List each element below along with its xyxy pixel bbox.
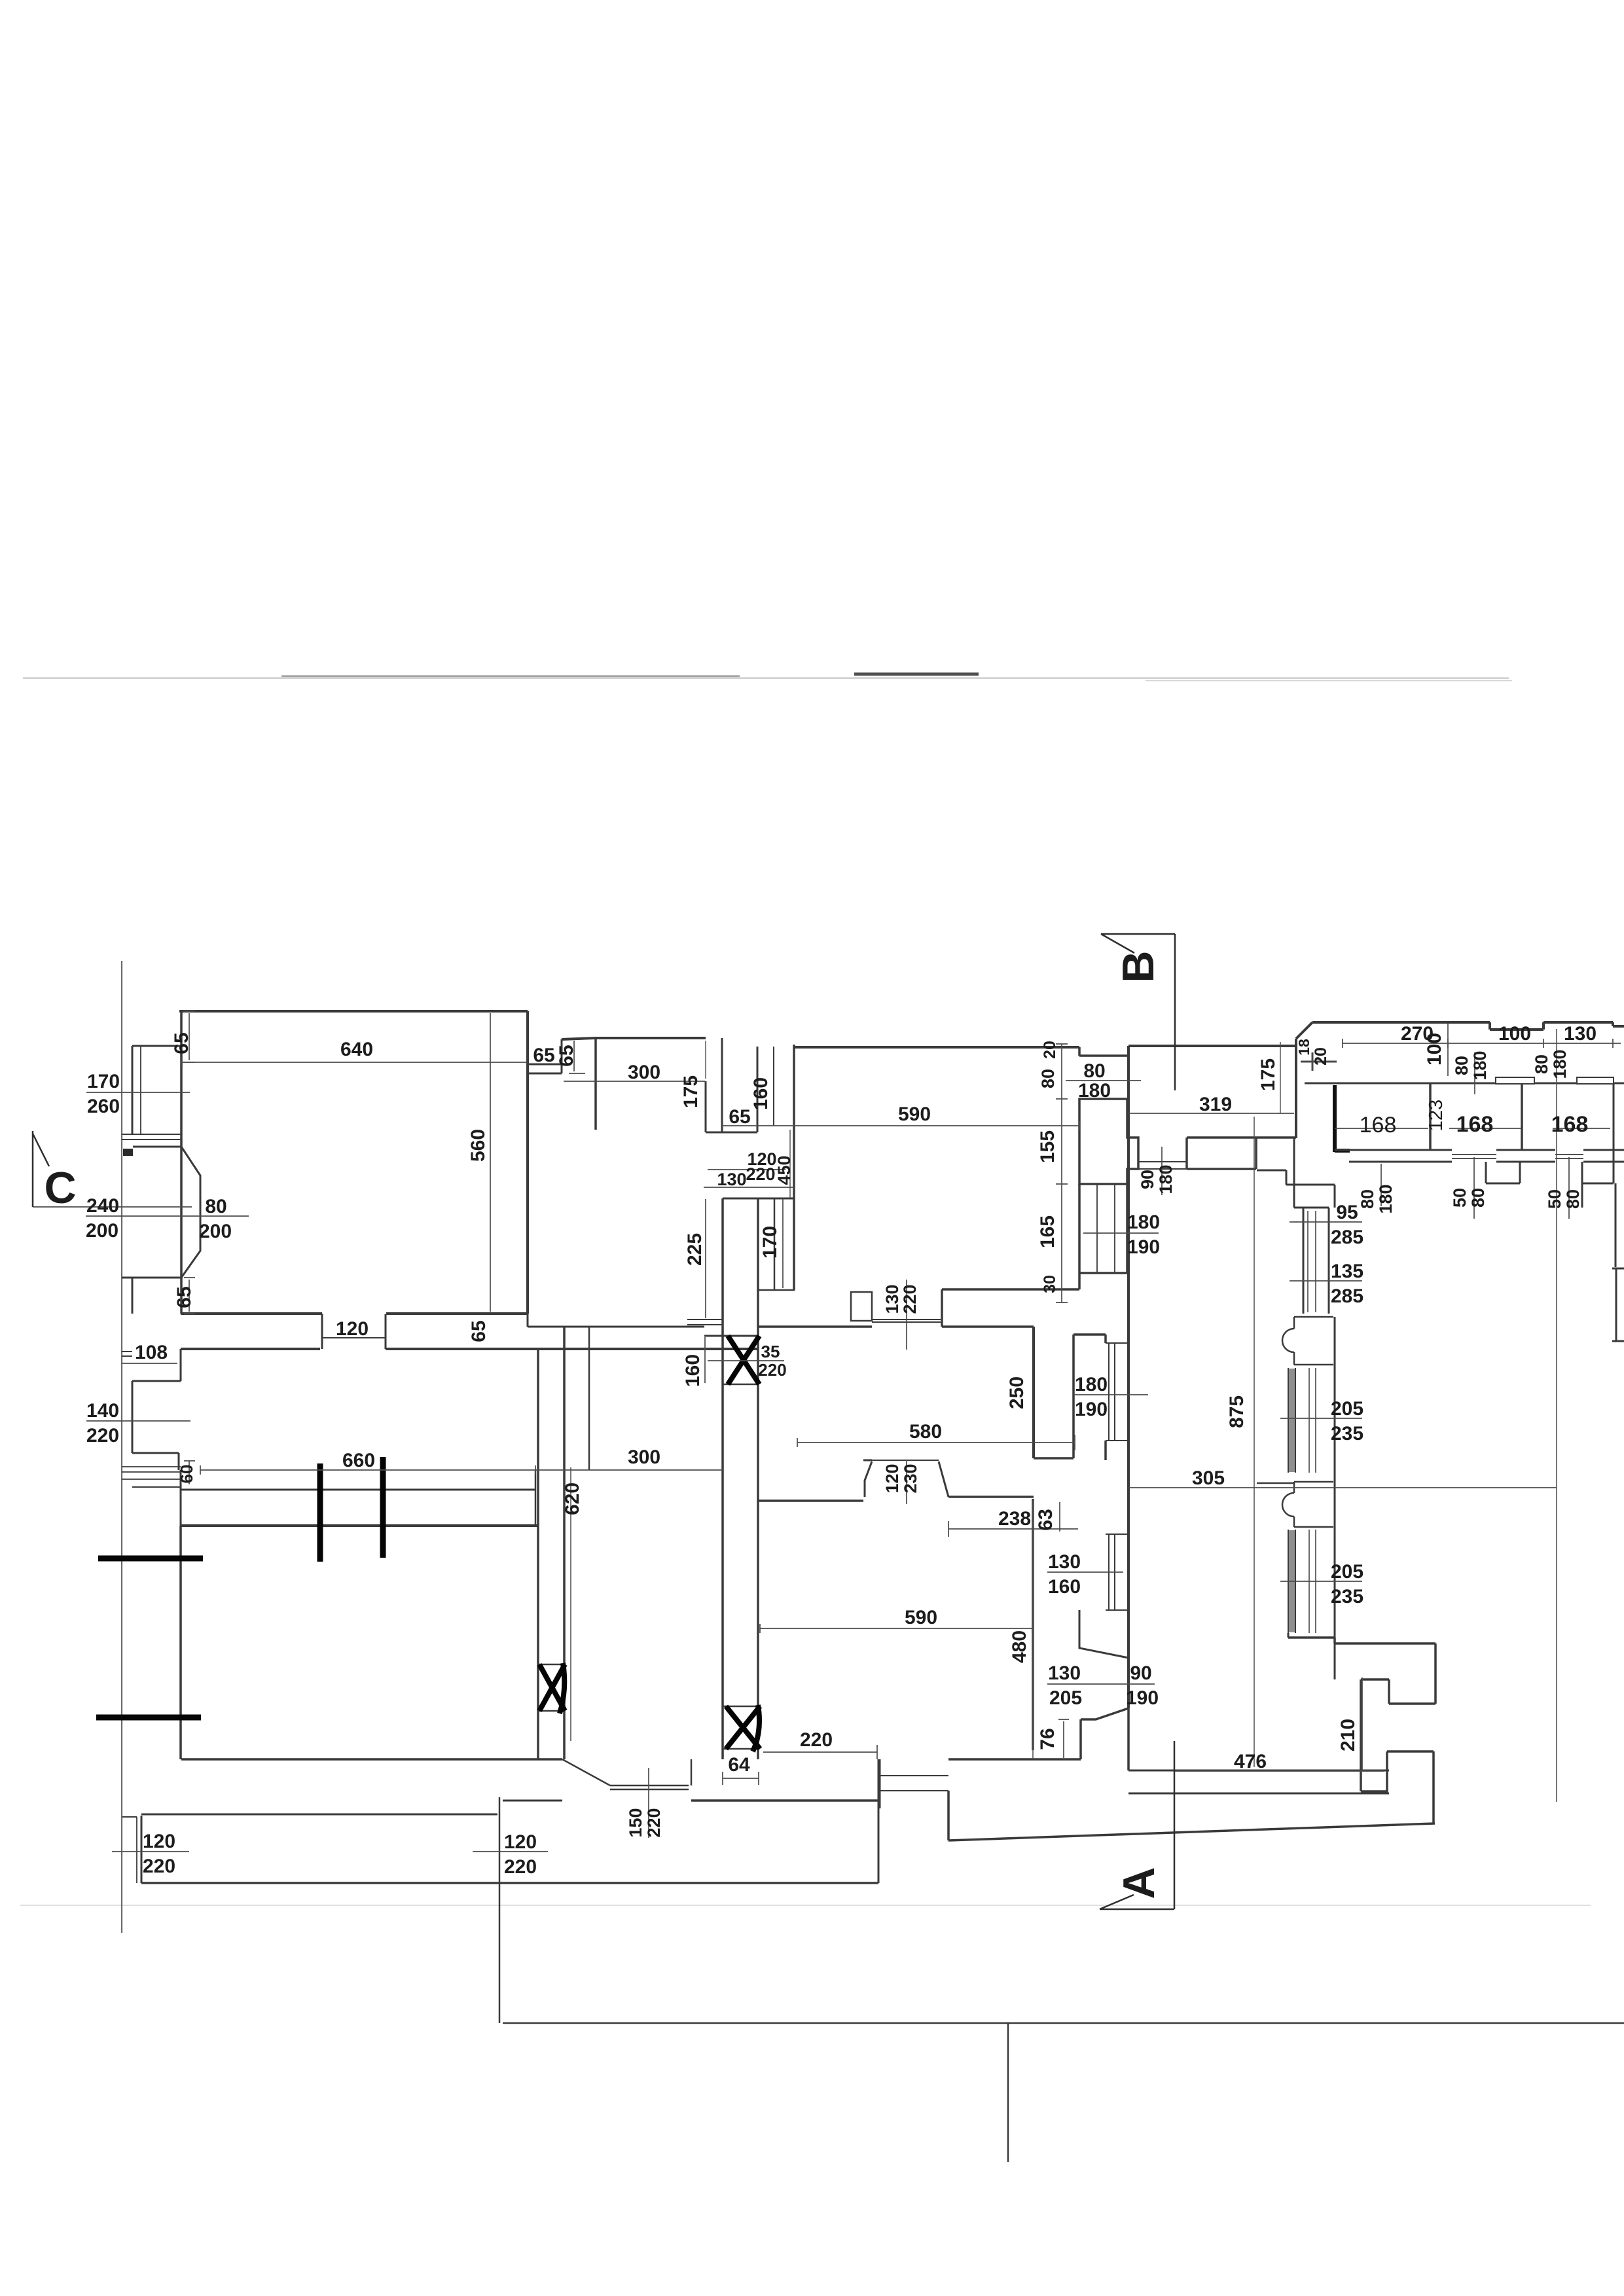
svg-text:220: 220 [86,1425,119,1446]
svg-text:120: 120 [143,1831,175,1852]
demolition bar horizontal 1 [98,1556,203,1562]
niche 2 [1294,1482,1333,1527]
svg-text:120: 120 [504,1831,537,1853]
dim 450 line [789,1130,791,1198]
svg-text:225: 225 [684,1233,706,1266]
svg-text:300: 300 [628,1062,660,1083]
thick glazing line left room [1333,1085,1337,1152]
svg-text:80: 80 [1038,1069,1058,1088]
lower-left room east wall [537,1349,539,1759]
top wing north wall [1312,1022,1624,1030]
bottom outline vertical center [1007,2023,1009,2162]
dim 120-230 door line [906,1460,907,1504]
dim 590 top line [723,1121,1079,1130]
dim 65 lowleft ticks [184,1278,195,1314]
svg-text:80: 80 [205,1196,226,1217]
window sill 170-260 [122,1134,181,1139]
dim 170 line [782,1199,784,1288]
wall jog at center door [878,1759,880,1883]
window 180-190 in hall wall [1106,1343,1128,1441]
dim 130 line mid [704,1187,794,1188]
dim ticks chain x1622 [1056,1044,1068,1302]
svg-text:50: 50 [1450,1188,1470,1208]
dim 319 line [1128,1113,1294,1114]
demolition bar vertical 1 [317,1463,323,1562]
svg-text:220: 220 [143,1856,175,1877]
svg-text:620: 620 [562,1482,583,1515]
wall right of 660 room [535,1470,537,1526]
svg-text:65: 65 [468,1320,490,1342]
dim 175 right line [1280,1042,1281,1113]
svg-text:65: 65 [173,1286,195,1308]
dim 180-190 low line [1074,1394,1148,1395]
svg-text:480: 480 [1009,1630,1030,1663]
dim 60 ticks [184,1461,195,1484]
demolition bar vertical 2 [380,1457,386,1558]
crossed door X upper [723,1336,758,1384]
svg-text:190: 190 [1126,1687,1159,1709]
wall segment above door [942,1288,1079,1291]
dim 65 top-left [183,1011,195,1062]
chimney slants at hall [1079,1610,1128,1658]
section marker A [1100,1741,1174,1909]
dim 180-190 line [1083,1232,1159,1234]
svg-text:A: A [1114,1867,1164,1899]
top wing inner north face [1305,1083,1624,1085]
svg-text:130: 130 [1048,1662,1081,1684]
corridor south wall [181,1348,757,1350]
svg-text:590: 590 [905,1607,937,1628]
svg-text:130: 130 [882,1284,902,1314]
dim 80-180 top line [1066,1080,1141,1081]
svg-text:305: 305 [1192,1467,1225,1489]
svg-text:80: 80 [1358,1189,1377,1209]
svg-text:100: 100 [1498,1023,1531,1045]
wall right of big left room [526,1011,529,1314]
dim 270-100-130 line [1343,1039,1621,1048]
svg-text:150: 150 [626,1808,645,1837]
window 130-160 in hall wall low [1106,1534,1128,1610]
wall top of big left room [179,1010,528,1013]
svg-text:80: 80 [1563,1189,1583,1209]
svg-text:65: 65 [533,1045,554,1066]
svg-text:65: 65 [171,1032,192,1054]
wall top of 300 room [562,1038,706,1039]
dim 80-180 vline a [1474,1052,1475,1094]
south wall right inner [948,1758,1081,1761]
crossed door X left [538,1664,564,1711]
E-end of south-east wing [1288,1638,1435,1791]
shaft wall right of 300 room [706,1038,757,1132]
pillar below hall [1079,1099,1138,1184]
west wall of east wing with niches [1334,1317,1336,1679]
wall left inner face of big left room [180,1011,183,1314]
svg-text:319: 319 [1199,1094,1232,1115]
svg-text:285: 285 [1331,1285,1363,1307]
wall block right of door [1187,1138,1256,1169]
dim 210 line [1362,1677,1363,1771]
south wall outer lines left [141,1801,562,1814]
wall 250 east of 580 room [1032,1327,1035,1458]
svg-text:160: 160 [1048,1576,1081,1598]
svg-text:580: 580 [909,1421,942,1443]
bay window splay [122,1147,200,1278]
middle hall west wall [563,1327,566,1759]
svg-text:220: 220 [644,1808,664,1837]
wall east of lower 590 room [1032,1499,1034,1750]
svg-text:90: 90 [1130,1662,1151,1684]
small corner stubs 660 room NE [687,1319,723,1325]
wall 580 room south left part [757,1499,863,1502]
dim 135-285 line [1290,1280,1362,1282]
wall left of lower-left room [179,1526,182,1759]
wall face under sill [181,1489,535,1491]
east wall top wing [1582,1084,1614,1208]
dim 875 line [1254,1117,1255,1767]
window sill blocks top wing [1496,1077,1614,1084]
svg-text:155: 155 [1037,1130,1058,1163]
svg-text:200: 200 [199,1221,232,1242]
svg-text:80: 80 [1468,1188,1488,1208]
svg-text:65: 65 [729,1106,750,1128]
svg-text:205: 205 [1331,1398,1363,1420]
dim 160 door line [704,1337,706,1383]
dim 76 line [1058,1719,1069,1758]
window lines upper shaft [773,1047,774,1126]
svg-text:35: 35 [761,1342,780,1361]
bottom outline horizontal [503,2022,1624,2024]
dim C section line [33,1206,192,1208]
svg-text:220: 220 [746,1164,775,1184]
svg-text:175: 175 [1257,1058,1279,1091]
dim 225 line [705,1199,706,1318]
dim 175 line [705,1041,706,1079]
svg-text:168: 168 [1551,1112,1589,1137]
shaft right wall upper [757,1047,759,1132]
window hatch 1 [1288,1368,1295,1473]
svg-text:590: 590 [898,1103,931,1125]
door sills top wing corridor [1452,1155,1583,1158]
svg-text:90: 90 [1138,1170,1157,1189]
svg-text:65: 65 [556,1045,577,1066]
window sill hatch 660 room [122,1467,181,1479]
south wall outer edge left [141,1882,878,1884]
wall left of 300 room [594,1038,597,1130]
dim 476 line [1174,1770,1384,1772]
svg-text:640: 640 [340,1039,373,1060]
dim 80-180 door a line [1380,1164,1382,1206]
scan artifact top rule [23,677,1509,679]
svg-text:235: 235 [1331,1586,1363,1607]
svg-text:135: 135 [1331,1261,1363,1282]
dim 590 lower line [760,1624,1032,1633]
svg-text:100: 100 [1424,1033,1445,1066]
lower shaft walls [721,1198,724,1759]
hall west wall [1127,1046,1130,1708]
svg-text:230: 230 [901,1463,920,1493]
left boundary line [121,961,122,1933]
svg-text:285: 285 [1331,1227,1363,1248]
svg-text:170: 170 [87,1071,120,1092]
svg-text:180: 180 [1376,1184,1396,1213]
wall left of 590 room [793,1045,795,1290]
wall top of lower-left room [181,1524,538,1527]
dim 35-220 line [708,1360,784,1361]
niche 1 [1294,1317,1333,1365]
dim 640 line [182,1058,528,1067]
svg-text:C: C [44,1163,76,1213]
svg-text:18: 18 [1295,1039,1312,1056]
dim 108 line [122,1363,177,1364]
bottom outline vertical left [499,1797,501,2023]
dim 95-285 line [1290,1221,1362,1223]
door sill 130-220 [872,1319,941,1322]
dim 140-220 line [86,1420,190,1422]
wall east jog of 580 room [1034,1335,1106,1460]
svg-text:476: 476 [1234,1751,1267,1772]
svg-text:875: 875 [1226,1395,1248,1428]
svg-text:165: 165 [1037,1215,1058,1248]
wall top of hall to B [1128,1045,1296,1047]
dim 240-200 line [86,1215,249,1217]
door sill at pillar [1138,1162,1187,1169]
svg-text:130: 130 [1048,1551,1081,1573]
wall left inner continuation [180,1470,182,1526]
dim 100 vert line [1447,1024,1449,1076]
sill lip bottom left [122,1816,137,1818]
svg-text:168: 168 [1360,1113,1397,1138]
window hatch 2 [1288,1530,1295,1633]
demolition bar horizontal 2 [96,1715,201,1721]
dim 620 line [570,1467,571,1741]
wall left outer face lower column [132,1278,134,1314]
svg-text:220: 220 [758,1360,786,1380]
wall top of 590 room [794,1046,1079,1049]
partition walls top wing [1430,1083,1522,1150]
dim 130-205 90-190 line [1047,1683,1155,1685]
dim 120-220 line mid [708,1169,785,1170]
svg-text:238: 238 [998,1508,1031,1530]
svg-text:240: 240 [86,1195,119,1217]
top wing west edge [1296,1022,1312,1138]
svg-text:160: 160 [750,1077,772,1110]
step wall at top middle [528,1039,562,1073]
section marker C [33,1131,49,1207]
west wall lower reach [1288,1633,1335,1643]
dim 300 line top [564,1081,705,1082]
svg-text:560: 560 [467,1129,489,1162]
svg-text:130: 130 [1564,1023,1597,1045]
scan artifact faint rule lower [20,1905,1591,1906]
dim 168 lines [1335,1128,1610,1129]
dim 660-300 line [200,1465,723,1475]
svg-text:168: 168 [1456,1112,1494,1137]
svg-text:30: 30 [1041,1275,1059,1293]
dim 480 line [1032,1501,1034,1759]
dim 150-220 line [648,1768,649,1838]
door 120 sill [322,1337,386,1338]
svg-text:123: 123 [1426,1100,1447,1131]
dim 560 line [490,1013,491,1312]
corridor walls middle [528,1314,758,1336]
svg-text:200: 200 [86,1220,118,1242]
svg-text:180: 180 [1078,1080,1111,1102]
svg-text:220: 220 [504,1856,537,1878]
svg-text:220: 220 [800,1729,833,1751]
wall 580 room north with door 130-220 [758,1325,1034,1328]
door shaft below pillar [1079,1184,1127,1273]
svg-text:180: 180 [1156,1164,1176,1194]
svg-text:20: 20 [1312,1047,1330,1066]
svg-text:80: 80 [1452,1056,1471,1075]
svg-text:205: 205 [1331,1561,1363,1583]
window column east of hall [1294,1208,1329,1314]
corridor west wall second line [588,1327,590,1470]
south wall inner face left [181,1758,562,1761]
dim 170-260 line [86,1092,190,1093]
svg-text:140: 140 [86,1400,119,1422]
svg-text:64: 64 [728,1754,750,1776]
south corridor band 476 [1128,1770,1389,1793]
small notches left wall [122,1352,181,1487]
svg-text:63: 63 [1035,1509,1056,1530]
svg-text:B: B [1113,950,1163,982]
svg-text:95: 95 [1336,1202,1358,1223]
dim 64 line with arrows [723,1772,759,1785]
dim 120-220 left line [112,1851,189,1852]
dim 20 bracket top wing [1301,1052,1337,1071]
door 120 jambs [322,1314,386,1349]
recess 20 in top wall [1079,1046,1128,1056]
svg-text:120: 120 [882,1463,902,1493]
dim 220 line low [763,1745,877,1759]
svg-text:20: 20 [1041,1041,1059,1059]
south wall right outer edge [948,1791,1435,1840]
door jamb right [941,1289,943,1327]
svg-text:80: 80 [1532,1054,1551,1074]
crossed door X lower middle [723,1706,758,1749]
corridor north wall [181,1312,528,1315]
dim 90-180 line [1161,1147,1163,1195]
dim 305 line [1128,1487,1557,1488]
dim 130-160 line [1047,1571,1123,1573]
svg-text:450: 450 [774,1155,794,1185]
wall left outer face upper column [132,1046,181,1134]
svg-text:235: 235 [1331,1423,1363,1444]
dim 50-80 door lines [1474,1157,1569,1219]
dim 580 line [797,1435,1075,1450]
hall east wall upper [1293,1138,1295,1208]
window pane line [140,1046,141,1134]
center-south door sills [880,1776,948,1791]
svg-text:180: 180 [1075,1374,1108,1395]
svg-text:190: 190 [1127,1236,1160,1258]
svg-text:210: 210 [1337,1719,1359,1751]
svg-text:160: 160 [682,1354,704,1387]
svg-text:250: 250 [1006,1376,1028,1409]
svg-text:175: 175 [680,1075,702,1108]
dim 65 step ticks [569,1041,585,1073]
svg-text:300: 300 [628,1446,660,1468]
svg-text:660: 660 [342,1450,375,1471]
dim 205-235 lines [1280,1418,1362,1581]
svg-text:190: 190 [1075,1399,1108,1420]
svg-text:130: 130 [717,1170,746,1189]
south wall inner face right of doorway [691,1799,880,1802]
door jamb block [851,1292,872,1321]
wall south of B hall [1187,1136,1296,1139]
section marker B [1101,934,1175,1090]
svg-text:108: 108 [135,1342,168,1363]
E-end lower block [1387,1751,1434,1823]
dim 63 line [1059,1502,1060,1532]
svg-text:76: 76 [1037,1728,1058,1749]
south wall window left [137,1817,141,1883]
long reference line right [1556,1029,1557,1802]
funnel door 120-230 [865,1462,948,1497]
dim 238 line [948,1521,1078,1537]
svg-text:180: 180 [1127,1211,1160,1233]
dim 130-220 door line [906,1280,907,1350]
svg-text:260: 260 [87,1096,120,1117]
wing link walls [1257,1170,1335,1208]
svg-text:80: 80 [1083,1060,1105,1082]
svg-text:180: 180 [1550,1049,1570,1079]
dim 120-220 mid line [473,1851,548,1852]
wall step below corridor [132,1349,181,1470]
top wing south corridor walls [1335,1149,1624,1151]
doorway splay south-center [562,1759,691,1789]
svg-text:180: 180 [1470,1050,1490,1080]
wall 580 room south right part [863,1460,872,1462]
svg-text:220: 220 [900,1284,920,1314]
svg-text:120: 120 [336,1318,369,1340]
svg-text:205: 205 [1049,1687,1082,1709]
svg-text:170: 170 [759,1226,781,1259]
wall blocks below wing corridor [1486,1162,1582,1183]
wall block in bay [123,1149,133,1156]
svg-text:50: 50 [1545,1189,1564,1209]
svg-text:60: 60 [177,1465,196,1484]
